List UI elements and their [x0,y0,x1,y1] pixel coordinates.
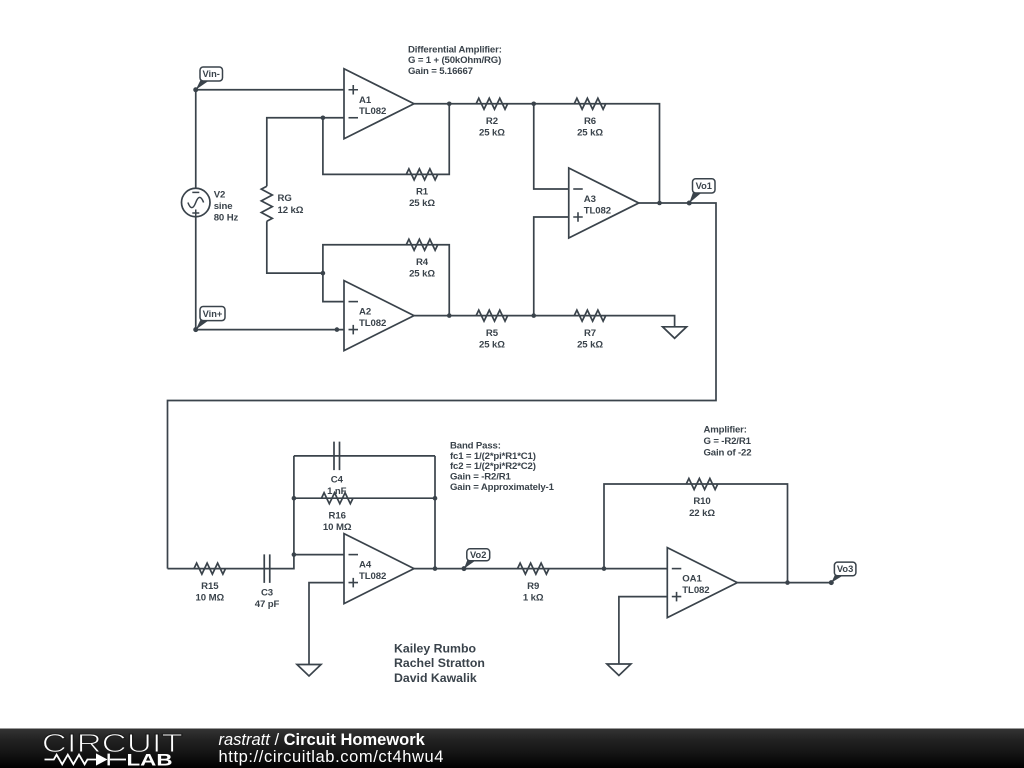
svg-text:R15: R15 [201,581,219,592]
svg-text:R5: R5 [486,328,499,339]
wire A3 output Vo1 down and across to stage 2 input [168,203,717,569]
resistor R7 [574,310,606,350]
node feedback rail to A4 output [433,566,438,571]
svg-text:Kailey Rumbo: Kailey Rumbo [394,641,476,655]
node R2-R6 junction [531,101,536,106]
svg-text:R2: R2 [486,116,498,127]
svg-text:25 kΩ: 25 kΩ [577,339,603,350]
op-amp A4 [344,534,414,604]
ground below OA1 [607,664,631,676]
annotation amplifier [704,425,752,459]
resistor R4 [406,239,438,279]
capacitor C4 [327,442,347,497]
wire A4 + input to ground [309,583,344,665]
resistor R10 [686,479,718,519]
node R16 right junction [433,496,438,501]
node Vin- junction [193,87,198,92]
wire R5-R7 node up to A3 + input [534,217,569,316]
svg-text:25 kΩ: 25 kΩ [409,198,435,209]
svg-text:Amplifier:: Amplifier: [704,425,747,436]
svg-text:C4: C4 [331,475,344,486]
svg-text:Gain of -22: Gain of -22 [704,447,752,458]
svg-text:22 kΩ: 22 kΩ [689,508,715,519]
annotation differential amplifier [408,44,502,77]
wire right feedback rail to A4 output [434,456,436,569]
wire R16 feedback [294,497,435,499]
svg-text:Gain = Approximately-1: Gain = Approximately-1 [450,482,555,493]
node R10 to OA1 output junction [785,580,790,585]
svg-text:Rachel Stratton: Rachel Stratton [394,656,485,670]
wire A2 output through R5 and R7 to ground [414,316,675,327]
capacitor C3 [255,554,280,609]
node R5-R7 junction [531,313,536,318]
svg-text:Vo2: Vo2 [470,550,486,560]
node Vin+ junction [193,327,198,332]
svg-text:10 MΩ: 10 MΩ [196,592,225,603]
node A1 output junction [447,101,452,106]
svg-text:Vo3: Vo3 [837,564,853,574]
resistor R5 [476,310,508,350]
svg-text:fc2 = 1/(2*pi*R2*C2): fc2 = 1/(2*pi*R2*C2) [450,461,536,472]
CircuitLab logo resistor-diode glyph [45,754,127,766]
wire A2 - node to A2 - input [323,273,344,302]
svg-text:1 kΩ: 1 kΩ [523,592,544,603]
node A4 - junction [292,552,297,557]
svg-text:Vin-: Vin- [202,69,219,79]
svg-text:fc1 = 1/(2*pi*R1*C1): fc1 = 1/(2*pi*R1*C1) [450,451,536,462]
node flag Vo2 [462,549,490,571]
svg-text:David Kawalik: David Kawalik [394,671,477,685]
node A2 output junction [447,313,452,318]
wire Vin+ node to A2 + input [196,329,344,331]
node A1 inverting junction [321,115,326,120]
svg-text:A3: A3 [584,194,596,205]
wire R10 feedback around OA1 [604,484,788,583]
svg-text:TL082: TL082 [584,206,611,217]
wire V2 bottom down to Vin+ node [195,217,197,330]
svg-text:Gain = 5.16667: Gain = 5.16667 [408,66,473,77]
svg-text:47 pF: 47 pF [255,599,280,610]
svg-text:sine: sine [214,201,233,212]
svg-text:Gain = -R2/R1: Gain = -R2/R1 [450,472,512,483]
svg-text:25 kΩ: 25 kΩ [409,269,435,280]
node flag Vo1 [687,179,715,206]
wire Vin- node to A1 + input [196,89,344,91]
node R16 left junction [292,496,297,501]
wire OA1 output to Vo3 [737,582,831,584]
resistor R6 [574,98,606,138]
resistor R2 [476,98,508,138]
wire R2-R6 node down to A3 - input [534,104,569,189]
svg-text:G = 1 + (50kOhm/RG): G = 1 + (50kOhm/RG) [408,55,501,66]
svg-text:25 kΩ: 25 kΩ [479,339,505,350]
svg-text:V2: V2 [214,189,226,200]
svg-text:R10: R10 [693,496,710,507]
node flag Vin- [193,67,222,92]
svg-text:TL082: TL082 [359,106,386,117]
svg-text:A2: A2 [359,307,371,318]
resistor R1 [406,169,438,209]
svg-text:rastratt / Circuit Homework: rastratt / Circuit Homework [219,731,426,749]
node A2 inverting junction [321,271,326,276]
annotation author names [394,641,485,685]
ground below A4 [297,665,321,677]
node R9-R10 junction [602,566,607,571]
svg-text:25 kΩ: 25 kΩ [577,128,603,139]
wire RG top to A1 - input [267,118,344,187]
node flag Vo3 [829,562,856,585]
svg-text:Vin+: Vin+ [203,309,223,319]
op-amp A3 [569,168,639,238]
wire Vin- node down to V2 top [195,90,197,189]
svg-text:R16: R16 [329,510,346,521]
svg-text:http://circuitlab.com/ct4hwu4: http://circuitlab.com/ct4hwu4 [219,748,445,766]
svg-text:LAB: LAB [127,751,173,768]
svg-text:G = -R2/R1: G = -R2/R1 [704,436,752,447]
svg-text:OA1: OA1 [682,574,702,585]
svg-text:R4: R4 [416,257,429,268]
svg-text:TL082: TL082 [359,571,386,582]
resistor R15 [194,563,226,603]
svg-text:TL082: TL082 [359,318,386,329]
svg-text:R7: R7 [584,328,596,339]
svg-text:Band Pass:: Band Pass: [450,440,501,451]
node flag Vin+ [193,307,225,333]
ground below R7 [663,327,687,339]
wire A1 - node through R1 to A1 output node [323,104,449,175]
svg-text:R6: R6 [584,116,596,127]
svg-text:R9: R9 [527,581,539,592]
node on A2 + input wire [335,327,340,332]
svg-text:25 kΩ: 25 kΩ [479,128,505,139]
svg-text:12 kΩ: 12 kΩ [278,205,304,216]
svg-text:Vo1: Vo1 [696,181,712,191]
resistor R16 [321,493,353,533]
wire C4 feedback [294,455,435,457]
wire OA1 + input to ground [619,597,667,664]
svg-text:TL082: TL082 [682,585,709,596]
svg-text:Differential Amplifier:: Differential Amplifier: [408,44,502,55]
svg-text:R1: R1 [416,187,429,198]
annotation band pass [450,440,555,493]
wire A2 - node through R4 to A2 output node [323,245,449,316]
svg-text:C3: C3 [261,587,273,598]
op-amp A2 [344,281,414,351]
resistor RG [261,186,303,221]
svg-text:10 MΩ: 10 MΩ [323,522,352,533]
node R6 to A3 output junction [657,201,662,206]
svg-text:80 Hz: 80 Hz [214,212,239,223]
op-amp A1 [344,69,414,139]
wire A4 output through R9 to OA1 - input [414,568,667,570]
voltage source V2 [182,188,239,223]
wire stage2 input through R15 and C3 up feedback rail [168,456,294,569]
wire A1 output through R2 and R6 down to A3 output line [414,104,660,203]
resistor R9 [518,563,550,603]
svg-text:RG: RG [278,193,292,204]
svg-text:A1: A1 [359,95,372,106]
svg-text:1 nF: 1 nF [327,486,347,497]
svg-text:A4: A4 [359,560,372,571]
wire to A4 - input [294,554,344,556]
op-amp OA1 [667,548,737,618]
wire RG bottom to A2 - node [267,221,323,273]
